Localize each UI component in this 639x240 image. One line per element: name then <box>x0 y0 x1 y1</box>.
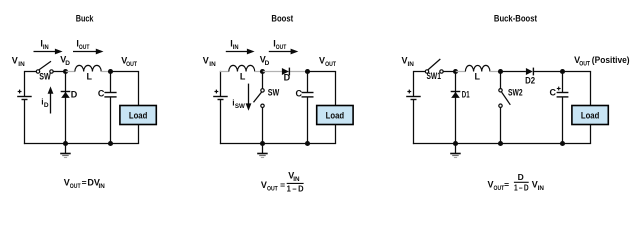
svg-text:OUT: OUT <box>267 186 278 193</box>
formula VOUT = D over 1 minus D times VIN (buck-boost) <box>488 172 545 192</box>
wire gray rail corner to inductor (boost) <box>220 71 229 73</box>
wire buck-boost battery to bottom rail <box>413 100 415 145</box>
wire gray VD to VOUT node through diode (boost) <box>263 71 308 73</box>
switch SW (buck) <box>36 61 53 73</box>
svg-text:SW: SW <box>235 103 246 110</box>
svg-text:SW2: SW2 <box>508 88 523 98</box>
svg-text:C: C <box>98 88 105 98</box>
wire switch to bottom rail (boost) <box>262 108 264 144</box>
svg-text:V: V <box>12 55 18 65</box>
diode D1 (buck-boost) <box>451 92 461 98</box>
load box (buck-boost) <box>572 106 608 125</box>
svg-text:D: D <box>518 172 524 182</box>
svg-text:IN: IN <box>538 185 545 192</box>
node VD junction (buck) <box>63 69 68 74</box>
title Buck <box>76 14 95 24</box>
label VIN (boost) <box>203 55 216 68</box>
label SW2 (buck-boost) <box>508 88 523 98</box>
label VD (buck) <box>60 54 70 67</box>
wire switch SW1 to D1 node (buck-boost) <box>443 71 455 73</box>
svg-text:Load: Load <box>581 111 600 122</box>
svg-text:Boost: Boost <box>271 14 293 24</box>
battery V1 (boost) <box>213 90 228 100</box>
node VD junction (boost) <box>260 69 265 74</box>
label IOUT with arrow (buck output current) <box>73 38 104 54</box>
formula VOUT = VIN over 1 minus D (boost) <box>261 170 304 193</box>
svg-text:IN: IN <box>233 44 239 51</box>
svg-text:OUT: OUT <box>579 61 590 68</box>
capacitor C branch wire (buck) <box>110 72 112 145</box>
wire switch SW2 to bottom rail (buck-boost) <box>500 108 502 145</box>
wire gray inductor to VD node (boost) <box>255 71 263 73</box>
wire load to bottom rail (boost) <box>335 125 337 144</box>
switch SW2 branch top wire (buck-boost) <box>500 72 502 89</box>
diode D2 (buck-boost) <box>526 68 534 76</box>
svg-text:=: = <box>82 178 87 188</box>
label iSW (boost) <box>232 98 245 111</box>
label D (boost) <box>284 73 291 83</box>
wire load to bottom rail (buck) <box>138 125 140 144</box>
svg-text:D: D <box>284 73 291 83</box>
wire load to bottom rail (buck-boost) <box>590 125 592 144</box>
label SW (buck) <box>39 71 51 81</box>
node SW2 top junction (buck-boost) <box>498 69 503 74</box>
switch SW2 (buck-boost) <box>499 89 511 108</box>
svg-text:L: L <box>240 72 246 82</box>
node VOUT junction (buck) <box>108 69 113 74</box>
node SW2 bottom junction (buck-boost) <box>498 141 503 146</box>
svg-text:V: V <box>261 180 267 190</box>
wire gray VD to inductor (buck) <box>66 71 75 73</box>
diode D (boost) <box>282 68 290 76</box>
node switch-ground junction (boost) <box>260 141 265 146</box>
svg-text:OUT: OUT <box>126 61 137 68</box>
capacitor C (buck) <box>104 93 116 97</box>
svg-text:OUT: OUT <box>79 44 90 51</box>
svg-text:D: D <box>65 60 70 67</box>
svg-text:C: C <box>296 88 303 98</box>
wire gray inductor to SW2 node (buck-boost) <box>490 71 501 73</box>
ground (buck-boost) <box>450 144 461 158</box>
diode D branch wire (buck) <box>65 72 67 145</box>
label D1 (buck-boost) <box>462 90 470 100</box>
wire boost battery to bottom rail <box>220 100 222 145</box>
label IIN with arrow (buck input current) <box>34 38 63 54</box>
ground (boost) <box>257 144 268 158</box>
svg-text:OUT: OUT <box>325 61 336 68</box>
label L (boost) <box>240 72 246 82</box>
svg-text:D: D <box>71 90 78 100</box>
label VD (boost) <box>260 54 270 67</box>
battery V1 (buck-boost) <box>406 90 421 100</box>
diode D1 branch wire (buck-boost) <box>455 72 457 145</box>
svg-text:OUT: OUT <box>276 44 287 51</box>
svg-text:IN: IN <box>209 61 216 68</box>
label C (boost) <box>296 88 303 98</box>
inductor L (boost) <box>229 65 255 71</box>
label VIN (buck-boost) <box>402 55 415 68</box>
svg-text:Buck-Boost: Buck-Boost <box>494 14 537 24</box>
wire VOUT node to load corner (buck-boost) <box>563 72 592 106</box>
wire buck battery to bottom rail <box>24 100 26 145</box>
wire buck top-left from battery to switch <box>25 71 37 97</box>
wire boost left rail top <box>220 71 222 97</box>
svg-text:=: = <box>504 179 509 189</box>
svg-text:IN: IN <box>43 44 49 51</box>
node capacitor bottom junction (buck) <box>108 141 113 146</box>
svg-text:SW: SW <box>39 71 51 81</box>
load box (buck) <box>120 106 156 125</box>
svg-text:V: V <box>203 55 209 65</box>
svg-text:D: D <box>44 102 49 109</box>
svg-text:C: C <box>550 87 557 97</box>
switch SW1 (buck-boost) <box>425 59 443 73</box>
capacitor C branch wire (boost) <box>307 72 309 145</box>
svg-text:(Positive): (Positive) <box>592 55 630 65</box>
svg-text:SW1: SW1 <box>427 71 441 81</box>
label VOUT (buck) <box>121 55 137 68</box>
label iD (buck) <box>41 97 49 110</box>
node capacitor bottom junction (buck-boost) <box>560 141 565 146</box>
wire buck switch to VD node <box>53 71 66 73</box>
node capacitor bottom junction (boost) <box>305 141 310 146</box>
wire buck VOUT to load corner <box>111 72 140 106</box>
node D1 top junction (buck-boost) <box>453 69 458 74</box>
label VIN (buck) <box>12 55 25 68</box>
wire boost bottom rail <box>220 143 336 145</box>
label C (buck-boost) <box>550 87 557 97</box>
ground (buck) <box>60 144 70 158</box>
node diode-ground junction (buck) <box>63 141 68 146</box>
svg-text:Load: Load <box>326 111 345 122</box>
wire boost VOUT to load corner <box>308 72 337 106</box>
label IIN with arrow (boost input current) <box>226 38 255 54</box>
svg-text:SW: SW <box>268 88 280 98</box>
switch SW (boost) <box>254 89 265 108</box>
title Buck-Boost <box>494 14 537 24</box>
svg-text:IN: IN <box>18 61 25 68</box>
svg-text:OUT: OUT <box>494 185 505 192</box>
wire gray node to inductor (buck-boost) <box>456 71 466 73</box>
label SW1 (buck-boost) <box>427 71 441 81</box>
wire buck bottom rail <box>24 143 139 145</box>
title Boost <box>271 14 293 24</box>
node VOUT junction (buck-boost) <box>560 69 565 74</box>
label IOUT with arrow (boost output current) <box>269 38 299 54</box>
label D (buck) <box>71 90 78 100</box>
current arrow iD (buck) <box>48 86 54 113</box>
svg-text:IN: IN <box>99 183 106 190</box>
wire buck-boost top-left from battery to switch SW1 <box>414 71 426 97</box>
capacitor C (boost) <box>302 93 314 97</box>
svg-text:D: D <box>265 60 270 67</box>
inductor L (buck-boost) <box>465 65 489 71</box>
node VOUT junction (boost) <box>305 69 310 74</box>
current arrow iSW (boost) <box>246 84 252 111</box>
label L (buck-boost) <box>475 72 481 82</box>
switch SW branch top wire (boost) <box>262 72 264 89</box>
label C (buck) <box>98 88 105 98</box>
svg-text:IN: IN <box>408 61 415 68</box>
svg-text:Buck: Buck <box>76 14 95 24</box>
battery V1 (buck) <box>17 90 32 100</box>
svg-text:=: = <box>280 180 285 190</box>
svg-text:L: L <box>87 72 93 82</box>
node D1-ground junction (buck-boost) <box>453 141 458 146</box>
svg-text:L: L <box>475 72 481 82</box>
svg-text:D2: D2 <box>525 75 535 85</box>
svg-text:Load: Load <box>129 111 148 122</box>
wire gray inductor to VOUT node (buck) <box>101 71 110 73</box>
wire diode D2 to VOUT node (buck-boost) <box>534 71 563 73</box>
svg-text:1 – D: 1 – D <box>287 183 304 193</box>
formula VOUT = DVIN (buck) <box>64 178 105 191</box>
label VOUT (boost) <box>319 55 336 68</box>
svg-text:OUT: OUT <box>70 183 81 190</box>
svg-text:1 – D: 1 – D <box>514 182 529 192</box>
capacitor C polarized (buck-boost) <box>557 87 569 97</box>
svg-text:D1: D1 <box>462 90 470 100</box>
label VOUT (Positive) (buck-boost) <box>574 55 630 68</box>
svg-text:IN: IN <box>293 176 300 183</box>
load box (boost) <box>317 106 353 125</box>
label L (buck) <box>87 72 93 82</box>
wire buck-boost bottom rail <box>413 143 591 145</box>
diode D (buck) <box>61 92 71 98</box>
label D2 (buck-boost) <box>525 75 535 85</box>
label SW (boost) <box>268 88 280 98</box>
capacitor C branch wire (buck-boost) <box>562 72 564 145</box>
inductor L (buck) <box>75 65 101 71</box>
wire SW2 node to diode D2 (buck-boost) <box>501 71 526 73</box>
